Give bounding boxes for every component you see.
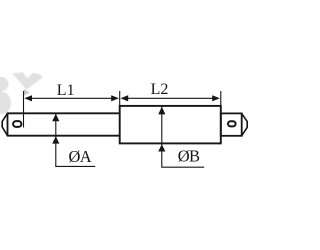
svg-text:L1: L1: [57, 82, 75, 99]
shaft body (left small diameter): [8, 113, 120, 137]
L2 dimension line: [126, 97, 214, 99]
right tab: [221, 113, 242, 135]
extension line right: [220, 91, 222, 106]
tab chamfer tip: [242, 113, 248, 135]
L1 right arrowhead: [111, 95, 119, 101]
tab cross hole: [228, 121, 236, 126]
svg-text:ØA: ØA: [69, 147, 92, 166]
L2 right arrowhead: [212, 95, 220, 101]
L2 left arrowhead: [121, 95, 129, 101]
watermark blob left edge: [0, 77, 11, 114]
svg-text:L2: L2: [151, 81, 169, 98]
extension line middle: [119, 91, 121, 106]
diameter B leader: [162, 107, 204, 167]
svg-text:ØB: ØB: [178, 147, 200, 166]
L1 dimension line: [30, 97, 113, 99]
watermark small marks: [24, 90, 28, 96]
diameter A bottom arrowhead: [52, 136, 59, 143]
L1 left arrowhead: [24, 95, 32, 101]
diameter B top arrowhead: [158, 107, 165, 115]
diameter A leader: [56, 114, 95, 167]
extension line left (L1 start): [23, 91, 25, 128]
shaft left chamfer tip: [2, 113, 7, 135]
left cross hole: [13, 121, 21, 127]
body (right large diameter cylinder): [120, 106, 221, 143]
diameter A top arrowhead: [52, 114, 59, 122]
diameter B bottom arrowhead: [158, 144, 165, 151]
watermark check shape: [12, 72, 42, 88]
